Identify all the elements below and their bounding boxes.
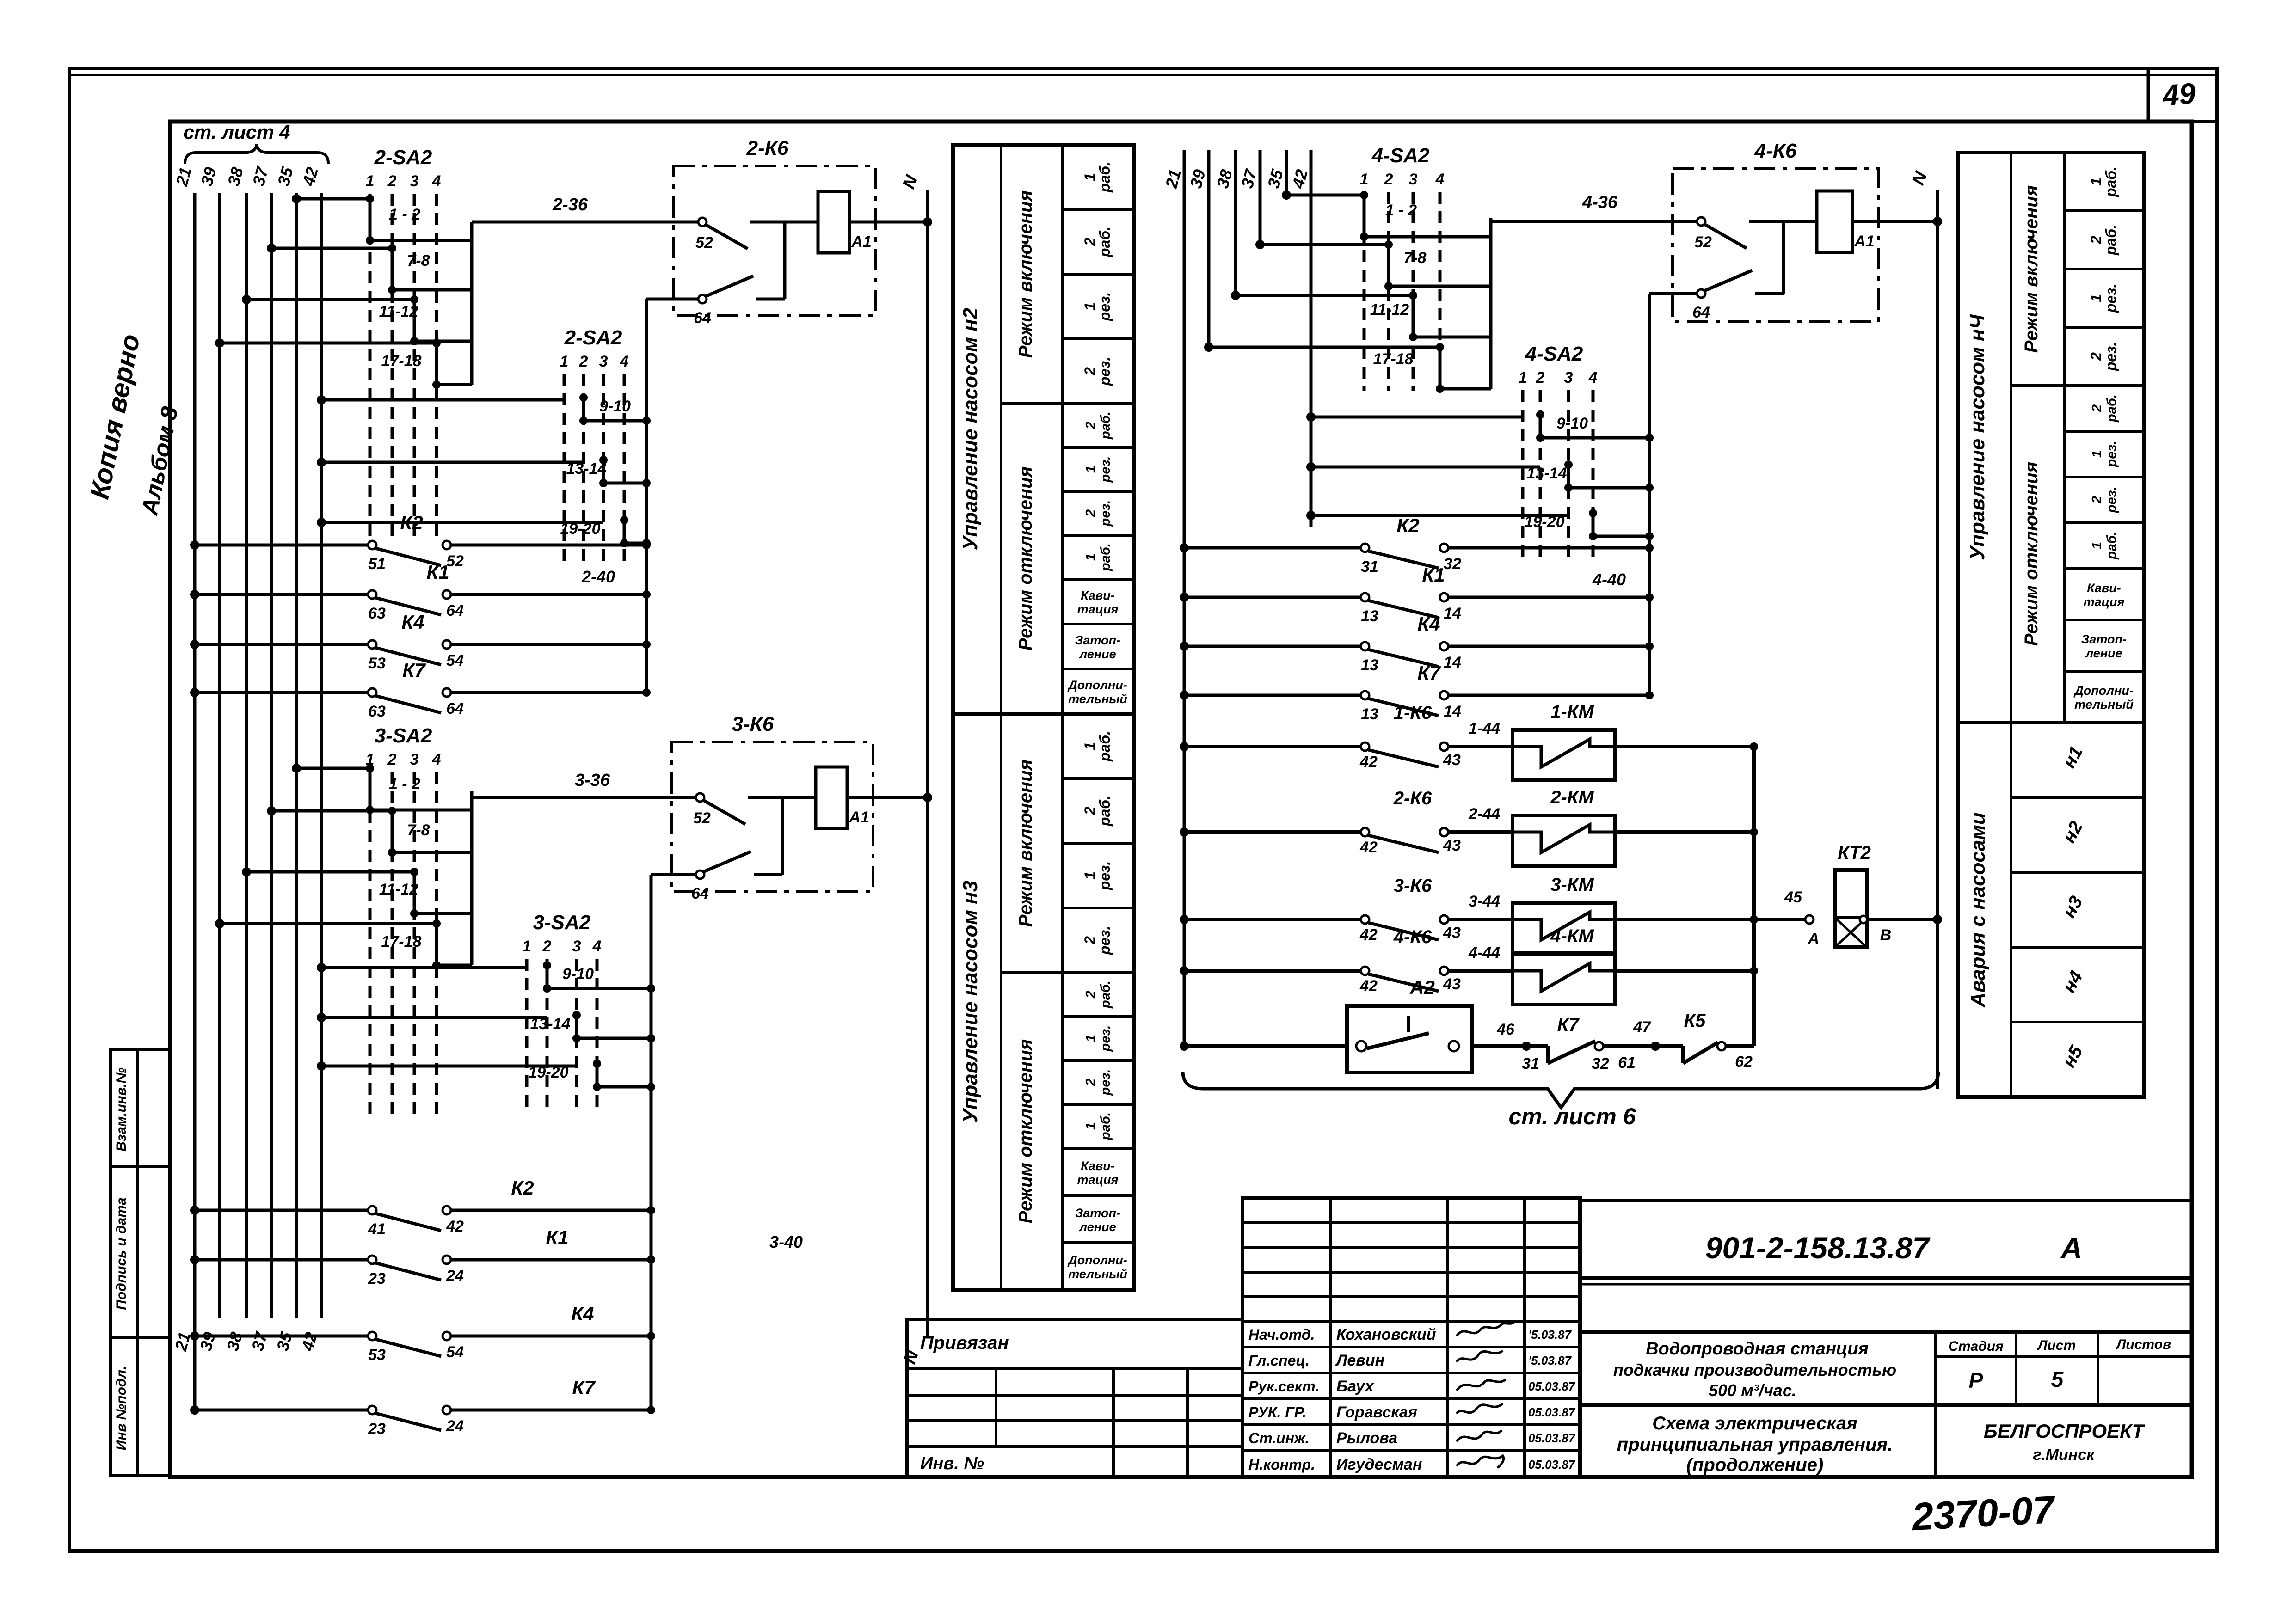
svg-text:Гл.спец.: Гл.спец. — [1248, 1352, 1310, 1369]
svg-text:4-36: 4-36 — [1582, 193, 1618, 212]
svg-text:11-12: 11-12 — [1370, 301, 1409, 319]
svg-text:ление: ление — [2085, 646, 2122, 660]
svg-text:1-К6: 1-К6 — [1394, 703, 1432, 723]
svg-text:05.03.87: 05.03.87 — [1528, 1431, 1576, 1445]
svg-text:31: 31 — [1361, 558, 1378, 576]
svg-text:2-40: 2-40 — [581, 567, 615, 586]
svg-text:4: 4 — [1435, 171, 1445, 188]
svg-text:Затоп-: Затоп- — [1075, 633, 1120, 647]
svg-text:43: 43 — [1443, 751, 1461, 769]
svg-text:Кави-: Кави- — [2087, 581, 2121, 595]
svg-text:Баух: Баух — [1336, 1378, 1375, 1395]
svg-text:Затоп-: Затоп- — [2081, 632, 2127, 646]
svg-text:принципиальная управления.: принципиальная управления. — [1617, 1434, 1893, 1455]
svg-text:52: 52 — [693, 809, 711, 827]
svg-text:Листов: Листов — [2116, 1337, 2171, 1352]
svg-text:19-20: 19-20 — [560, 520, 601, 538]
svg-text:9-10: 9-10 — [599, 398, 631, 415]
svg-text:Режим отключения: Режим отключения — [2021, 462, 2042, 646]
svg-text:61: 61 — [1618, 1054, 1636, 1072]
svg-text:64: 64 — [1692, 304, 1710, 321]
svg-text:К2: К2 — [511, 1177, 534, 1199]
svg-text:45: 45 — [1784, 889, 1802, 906]
svg-text:Инв №подл.: Инв №подл. — [114, 1366, 129, 1451]
svg-text:43: 43 — [1443, 975, 1461, 993]
svg-text:17-18: 17-18 — [1373, 350, 1414, 368]
svg-text:Кохановский: Кохановский — [1336, 1326, 1436, 1343]
svg-text:Дополни-: Дополни- — [2073, 684, 2134, 698]
svg-text:2-К6: 2-К6 — [1393, 788, 1432, 809]
svg-text:2-36: 2-36 — [552, 195, 588, 214]
svg-text:13: 13 — [1361, 656, 1378, 674]
svg-text:42: 42 — [1359, 839, 1378, 856]
svg-text:Игудесман: Игудесман — [1336, 1456, 1422, 1473]
svg-text:14: 14 — [1444, 605, 1461, 622]
svg-text:Привязан: Привязан — [920, 1333, 1009, 1353]
svg-text:Режим включения: Режим включения — [1015, 760, 1036, 927]
svg-text:42: 42 — [1359, 926, 1378, 944]
svg-text:2: 2 — [387, 751, 397, 768]
svg-text:11-12: 11-12 — [379, 881, 418, 898]
svg-text:2: 2 — [1536, 369, 1545, 386]
svg-text:62: 62 — [1735, 1053, 1753, 1071]
svg-text:43: 43 — [1443, 837, 1461, 854]
svg-text:1 - 2: 1 - 2 — [389, 206, 420, 223]
svg-text:23: 23 — [368, 1420, 386, 1438]
svg-text:3: 3 — [410, 172, 419, 190]
svg-text:г.Минск: г.Минск — [2033, 1446, 2096, 1464]
svg-text:1 - 2: 1 - 2 — [389, 775, 420, 793]
svg-text:Рылова: Рылова — [1336, 1429, 1397, 1447]
svg-text:4-SA2: 4-SA2 — [1371, 144, 1430, 167]
svg-text:4-40: 4-40 — [1592, 570, 1626, 589]
svg-text:500 м³/час.: 500 м³/час. — [1709, 1381, 1796, 1400]
svg-text:раб.: раб. — [2103, 225, 2119, 256]
svg-text:2: 2 — [1082, 238, 1098, 246]
svg-text:К1: К1 — [546, 1226, 568, 1248]
svg-text:К7: К7 — [1417, 662, 1441, 684]
svg-text:2: 2 — [1384, 171, 1393, 188]
svg-text:1-КМ: 1-КМ — [1550, 702, 1594, 722]
svg-text:54: 54 — [446, 652, 464, 669]
svg-text:5: 5 — [2051, 1367, 2064, 1392]
svg-text:(продолжение): (продолжение) — [1686, 1455, 1824, 1475]
svg-text:подкачки производительностью: подкачки производительностью — [1613, 1360, 1896, 1379]
svg-text:3-SA2: 3-SA2 — [533, 911, 591, 934]
svg-text:ст. лист 6: ст. лист 6 — [1509, 1103, 1636, 1129]
svg-text:52: 52 — [695, 234, 713, 251]
svg-text:2: 2 — [1083, 422, 1098, 429]
svg-text:3: 3 — [1409, 171, 1418, 188]
svg-text:1: 1 — [2088, 178, 2104, 186]
svg-text:47: 47 — [1633, 1018, 1652, 1036]
svg-text:рез.: рез. — [2104, 441, 2119, 468]
svg-text:А1: А1 — [849, 809, 869, 826]
svg-text:К2: К2 — [1396, 515, 1419, 536]
svg-text:4-44: 4-44 — [1468, 944, 1500, 962]
svg-text:1: 1 — [1082, 742, 1098, 750]
svg-text:рез.: рез. — [1098, 456, 1113, 483]
svg-text:рез.: рез. — [1096, 926, 1113, 956]
svg-text:42: 42 — [446, 1218, 464, 1235]
svg-text:31: 31 — [1522, 1055, 1539, 1072]
svg-text:К7: К7 — [572, 1377, 596, 1398]
svg-text:42: 42 — [1359, 753, 1378, 771]
svg-text:9-10: 9-10 — [562, 965, 594, 983]
svg-text:2: 2 — [542, 938, 552, 955]
svg-text:63: 63 — [368, 703, 386, 720]
svg-text:64: 64 — [446, 602, 464, 619]
svg-text:17-18: 17-18 — [381, 933, 422, 950]
svg-text:1 - 2: 1 - 2 — [1385, 202, 1417, 219]
svg-text:раб.: раб. — [1098, 981, 1113, 1009]
svg-text:1: 1 — [2090, 542, 2104, 549]
svg-text:Горавская: Горавская — [1336, 1403, 1417, 1421]
svg-text:А: А — [1808, 930, 1820, 948]
svg-text:2: 2 — [1082, 367, 1098, 376]
svg-text:2: 2 — [1083, 509, 1098, 517]
svg-text:тация: тация — [1077, 1173, 1119, 1187]
svg-text:Режим включения: Режим включения — [2021, 185, 2042, 353]
svg-text:А1: А1 — [851, 233, 871, 251]
svg-text:3-К6: 3-К6 — [732, 713, 774, 735]
svg-text:Авария с насосами: Авария с насосами — [1967, 812, 1989, 1008]
svg-text:К7: К7 — [1557, 1015, 1580, 1035]
svg-text:А1: А1 — [1854, 233, 1874, 250]
svg-text:раб.: раб. — [1098, 411, 1113, 440]
svg-text:32: 32 — [1444, 555, 1461, 573]
svg-text:КТ2: КТ2 — [1838, 843, 1871, 863]
svg-text:1: 1 — [1083, 1035, 1098, 1042]
svg-text:24: 24 — [446, 1417, 464, 1435]
svg-text:64: 64 — [446, 700, 464, 717]
svg-text:1: 1 — [1083, 1122, 1098, 1130]
svg-text:1: 1 — [1082, 173, 1098, 181]
svg-text:13-14: 13-14 — [530, 1015, 571, 1033]
svg-text:Управление насосом н2: Управление насосом н2 — [959, 307, 982, 550]
svg-text:К7: К7 — [402, 659, 426, 681]
svg-text:32: 32 — [1592, 1055, 1609, 1072]
svg-text:05.03.87: 05.03.87 — [1528, 1458, 1576, 1471]
svg-text:3-40: 3-40 — [769, 1232, 803, 1251]
svg-text:2: 2 — [1082, 936, 1098, 945]
svg-text:2-SA2: 2-SA2 — [564, 326, 622, 349]
svg-text:2: 2 — [579, 353, 588, 370]
svg-text:52: 52 — [1694, 233, 1712, 251]
svg-text:раб.: раб. — [2104, 394, 2119, 423]
svg-text:рез.: рез. — [1096, 357, 1113, 386]
svg-text:1-44: 1-44 — [1469, 720, 1500, 737]
svg-text:2: 2 — [2090, 404, 2104, 412]
svg-text:3: 3 — [410, 751, 419, 768]
svg-text:4-К6: 4-К6 — [1393, 927, 1432, 947]
svg-text:2-SA2: 2-SA2 — [374, 146, 432, 169]
svg-text:раб.: раб. — [1096, 731, 1113, 762]
svg-text:53: 53 — [368, 655, 386, 672]
svg-text:3-36: 3-36 — [575, 771, 610, 790]
svg-text:рез.: рез. — [1096, 292, 1113, 322]
svg-text:46: 46 — [1496, 1021, 1515, 1038]
svg-text:'5.03.87: '5.03.87 — [1528, 1328, 1572, 1342]
svg-text:А: А — [2060, 1232, 2082, 1265]
svg-text:14: 14 — [1444, 703, 1461, 720]
svg-text:4-КМ: 4-КМ — [1550, 926, 1594, 946]
svg-text:42: 42 — [1359, 977, 1378, 995]
svg-text:49: 49 — [2160, 77, 2196, 112]
svg-text:рез.: рез. — [2103, 342, 2119, 372]
svg-text:2-44: 2-44 — [1468, 805, 1500, 823]
svg-text:рез.: рез. — [2103, 284, 2119, 313]
svg-text:Затоп-: Затоп- — [1075, 1206, 1120, 1220]
svg-text:рез.: рез. — [1098, 1025, 1113, 1052]
svg-text:2: 2 — [2088, 236, 2104, 245]
svg-text:4: 4 — [1588, 369, 1598, 386]
svg-text:2370-07: 2370-07 — [1910, 1488, 2057, 1538]
svg-text:тельный: тельный — [1068, 692, 1127, 706]
svg-text:рез.: рез. — [1098, 1069, 1113, 1096]
svg-text:2-КМ: 2-КМ — [1550, 787, 1594, 808]
svg-text:901-2-158.13.87: 901-2-158.13.87 — [1705, 1231, 1931, 1265]
svg-text:Стадия: Стадия — [1948, 1339, 2004, 1354]
svg-text:Р: Р — [1969, 1368, 1983, 1392]
svg-text:Дополни-: Дополни- — [1067, 678, 1127, 692]
svg-text:БЕЛГОСПРОЕКТ: БЕЛГОСПРОЕКТ — [1984, 1420, 2146, 1442]
svg-text:4-SA2: 4-SA2 — [1525, 343, 1583, 365]
svg-text:13: 13 — [1361, 607, 1378, 625]
svg-text:4-К6: 4-К6 — [1754, 140, 1797, 162]
svg-text:ст. лист 4: ст. лист 4 — [184, 121, 290, 143]
svg-text:'5.03.87: '5.03.87 — [1528, 1354, 1572, 1367]
svg-text:К2: К2 — [400, 512, 423, 533]
svg-text:Взам.инв.№: Взам.инв.№ — [114, 1067, 129, 1151]
svg-text:1: 1 — [1360, 171, 1369, 188]
svg-text:рез.: рез. — [1098, 500, 1113, 527]
svg-text:4: 4 — [432, 172, 441, 190]
svg-text:тельный: тельный — [2074, 698, 2134, 711]
svg-text:тация: тация — [2084, 595, 2125, 609]
svg-text:64: 64 — [691, 885, 709, 902]
svg-text:3: 3 — [599, 353, 608, 370]
svg-text:1: 1 — [1082, 302, 1098, 311]
svg-text:Режим отключения: Режим отключения — [1015, 466, 1036, 650]
svg-text:53: 53 — [368, 1346, 386, 1364]
svg-text:7-8: 7-8 — [407, 821, 430, 839]
svg-text:54: 54 — [446, 1343, 464, 1361]
svg-text:3-44: 3-44 — [1469, 893, 1500, 910]
svg-text:7-8: 7-8 — [407, 252, 430, 270]
svg-text:1: 1 — [1083, 466, 1098, 473]
svg-text:9-10: 9-10 — [1556, 415, 1588, 432]
svg-text:05.03.87: 05.03.87 — [1528, 1379, 1576, 1393]
svg-text:51: 51 — [368, 555, 386, 573]
svg-text:Водопроводная станция: Водопроводная станция — [1646, 1339, 1869, 1359]
svg-text:3-К6: 3-К6 — [1394, 876, 1432, 896]
svg-text:Ст.инж.: Ст.инж. — [1248, 1430, 1309, 1446]
svg-text:11-12: 11-12 — [379, 303, 418, 320]
svg-text:1: 1 — [1082, 871, 1098, 880]
svg-text:Схема электрическая: Схема электрическая — [1652, 1413, 1857, 1434]
svg-text:Дополни-: Дополни- — [1067, 1253, 1127, 1267]
svg-text:ление: ление — [1078, 647, 1116, 661]
svg-text:43: 43 — [1443, 924, 1461, 942]
svg-text:2: 2 — [2088, 352, 2104, 361]
svg-text:2: 2 — [2090, 496, 2104, 504]
svg-text:17-18: 17-18 — [381, 352, 422, 370]
svg-text:РУК. ГР.: РУК. ГР. — [1248, 1404, 1306, 1421]
svg-text:1: 1 — [2090, 450, 2104, 458]
svg-text:А2: А2 — [1409, 976, 1435, 998]
svg-text:тация: тация — [1077, 602, 1119, 616]
svg-text:13-14: 13-14 — [566, 460, 607, 478]
svg-text:19-20: 19-20 — [1525, 513, 1565, 531]
svg-text:К1: К1 — [1422, 564, 1445, 586]
svg-text:Левин: Левин — [1335, 1352, 1384, 1369]
svg-text:23: 23 — [368, 1270, 386, 1287]
svg-text:Кави-: Кави- — [1081, 1159, 1114, 1173]
svg-text:Управление насосом н3: Управление насосом н3 — [959, 881, 982, 1123]
svg-text:1: 1 — [560, 353, 569, 370]
svg-text:14: 14 — [1444, 654, 1461, 671]
svg-text:рез.: рез. — [2104, 487, 2119, 514]
svg-text:Подпись и дата: Подпись и дата — [114, 1197, 129, 1310]
svg-text:24: 24 — [446, 1267, 464, 1285]
svg-text:4: 4 — [592, 938, 602, 955]
svg-text:3-КМ: 3-КМ — [1550, 875, 1594, 895]
svg-text:Нач.отд.: Нач.отд. — [1248, 1326, 1315, 1343]
svg-text:тельный: тельный — [1068, 1267, 1127, 1281]
svg-text:К1: К1 — [426, 561, 449, 583]
svg-text:2: 2 — [1083, 1079, 1098, 1086]
svg-text:Режим отключения: Режим отключения — [1015, 1039, 1036, 1223]
svg-text:Управление насосом нЧ: Управление насосом нЧ — [1966, 314, 1989, 560]
svg-text:Н.контр.: Н.контр. — [1248, 1456, 1315, 1473]
svg-text:63: 63 — [368, 605, 386, 622]
svg-text:2: 2 — [1083, 991, 1098, 999]
svg-text:4: 4 — [620, 353, 629, 370]
svg-text:К4: К4 — [1417, 613, 1440, 635]
svg-text:3: 3 — [1564, 369, 1573, 386]
svg-text:Инв. №: Инв. № — [920, 1454, 984, 1473]
svg-text:раб.: раб. — [2103, 166, 2119, 197]
svg-text:2-К6: 2-К6 — [746, 137, 789, 159]
svg-text:3-SA2: 3-SA2 — [375, 724, 432, 747]
svg-text:7-8: 7-8 — [1403, 249, 1426, 267]
svg-text:1: 1 — [366, 172, 375, 190]
svg-text:05.03.87: 05.03.87 — [1528, 1405, 1576, 1419]
svg-text:1: 1 — [2088, 294, 2104, 302]
svg-text:К4: К4 — [401, 611, 424, 633]
svg-text:ление: ление — [1078, 1220, 1116, 1234]
svg-text:раб.: раб. — [1096, 162, 1113, 193]
svg-text:64: 64 — [694, 309, 711, 327]
svg-text:13: 13 — [1361, 705, 1378, 723]
svg-text:раб.: раб. — [1098, 1112, 1113, 1140]
svg-text:13-14: 13-14 — [1527, 465, 1567, 482]
svg-text:Кави-: Кави- — [1081, 588, 1114, 602]
svg-text:Режим включения: Режим включения — [1015, 190, 1036, 358]
svg-text:раб.: раб. — [2104, 532, 2119, 560]
svg-text:раб.: раб. — [1096, 227, 1113, 257]
svg-text:1: 1 — [1519, 369, 1527, 386]
svg-text:раб.: раб. — [1096, 796, 1113, 827]
svg-text:Рук.сект.: Рук.сект. — [1248, 1378, 1319, 1395]
svg-text:19-20: 19-20 — [529, 1064, 569, 1081]
svg-text:В: В — [1880, 926, 1892, 944]
svg-text:2: 2 — [1082, 807, 1098, 815]
svg-text:К4: К4 — [571, 1303, 594, 1324]
svg-text:1: 1 — [523, 938, 531, 955]
svg-text:рез.: рез. — [1096, 861, 1113, 891]
svg-text:К5: К5 — [1684, 1011, 1706, 1031]
svg-text:1: 1 — [1083, 553, 1098, 561]
svg-text:41: 41 — [368, 1220, 386, 1238]
svg-text:Лист: Лист — [2037, 1338, 2076, 1353]
svg-text:2: 2 — [387, 172, 397, 190]
svg-text:раб.: раб. — [1098, 543, 1113, 571]
svg-text:3: 3 — [572, 938, 581, 955]
svg-text:4: 4 — [432, 751, 441, 768]
